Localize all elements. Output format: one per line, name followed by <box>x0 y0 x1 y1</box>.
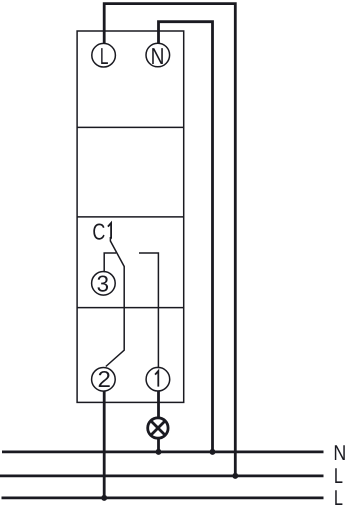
svg-text:2: 2 <box>97 366 110 392</box>
svg-text:N: N <box>333 441 346 465</box>
svg-text:L: L <box>334 464 343 488</box>
svg-text:N: N <box>151 43 165 69</box>
svg-text:C: C <box>92 218 105 244</box>
svg-text:3: 3 <box>97 270 109 296</box>
svg-text:L: L <box>100 43 109 69</box>
svg-text:L: L <box>334 486 343 510</box>
